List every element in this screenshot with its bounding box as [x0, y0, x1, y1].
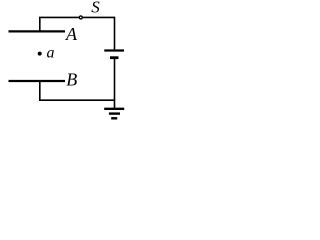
switch S contact circle	[79, 16, 82, 19]
battery cell long plate	[104, 49, 124, 51]
ground bar 1	[104, 108, 124, 110]
ground bar 3	[111, 117, 117, 119]
svg-text:S: S	[91, 0, 100, 17]
wire battery to ground	[114, 59, 116, 108]
svg-text:a: a	[47, 45, 55, 62]
svg-text:A: A	[65, 24, 78, 44]
wire plate B to battery bottom	[40, 81, 115, 100]
battery cell short plate	[110, 56, 119, 59]
node a dot	[38, 52, 42, 56]
ground bar 2	[109, 112, 120, 114]
svg-text:B: B	[66, 69, 77, 89]
capacitor plate B	[9, 80, 66, 82]
wire switch to battery top	[83, 17, 115, 49]
wire plate A to switch	[40, 17, 79, 31]
capacitor plate A	[9, 30, 66, 32]
